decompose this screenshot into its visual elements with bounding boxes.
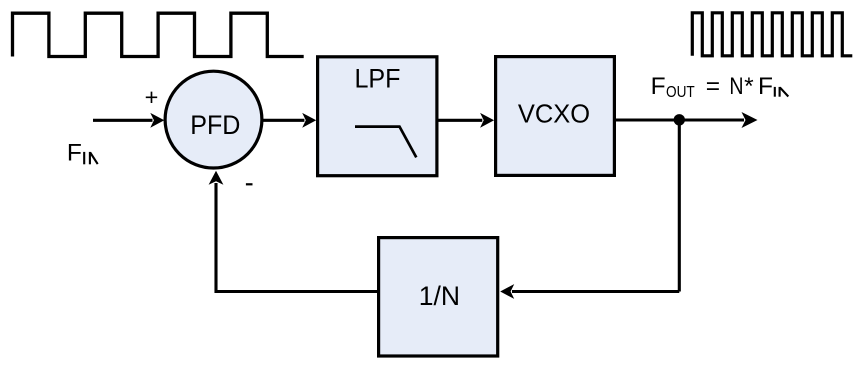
- svg-text:=: =: [706, 73, 720, 100]
- wire: feedback arrow into PFD bottom: [209, 171, 224, 185]
- label F_OUT = N*F_IN (output frequency): [651, 72, 789, 102]
- wire: feedback into 1/N divider: [500, 284, 679, 299]
- wire: 1/N output back toward PFD: [216, 183, 377, 292]
- wire: VCXO output to F_OUT arrow: [616, 112, 758, 128]
- wire: PFD output to LPF: [262, 113, 316, 128]
- wire: input arrow into PFD: [93, 113, 164, 128]
- label F_IN (input frequency): [67, 139, 98, 166]
- label - (PFD negative/feedback input): [246, 183, 253, 185]
- svg-text:1/N: 1/N: [419, 281, 460, 311]
- svg-text:F: F: [67, 139, 82, 166]
- block 1/N (feedback frequency divider): [379, 238, 498, 356]
- low-pass filter response symbol inside LPF: [355, 127, 416, 158]
- input reference clock waveform: [13, 13, 304, 56]
- svg-text:*: *: [744, 73, 754, 100]
- svg-text:OUT: OUT: [666, 84, 695, 101]
- svg-text:F: F: [758, 73, 773, 100]
- block LPF (loop low-pass filter): [318, 57, 437, 176]
- wire: LPF output to VCXO: [439, 113, 495, 128]
- op-amp-style comparator: PFD phase-frequency detector circle: [165, 71, 262, 168]
- block VCXO (voltage-controlled crystal oscillator): [496, 57, 615, 176]
- svg-text:+: +: [145, 84, 159, 110]
- svg-text:LPF: LPF: [354, 63, 400, 94]
- svg-text:F: F: [651, 73, 666, 100]
- wire: feedback vertical drop from output node: [678, 120, 681, 292]
- output high-frequency clock waveform: [692, 13, 852, 56]
- svg-text:VCXO: VCXO: [518, 100, 590, 128]
- svg-text:PFD: PFD: [190, 109, 240, 140]
- svg-text:N: N: [729, 72, 743, 100]
- node: output junction dot: [674, 114, 685, 125]
